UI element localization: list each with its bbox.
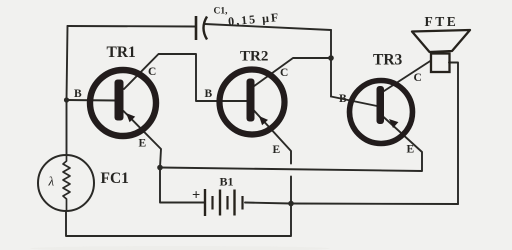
photocell FC1 circle	[38, 155, 94, 211]
wire: TR2 emitter continues below bus (crossing, no connection)	[290, 177, 292, 204]
wire: bottom return to FC1	[66, 204, 291, 237]
wire: TR3 base lead	[331, 97, 377, 107]
wire: TR1 base lead	[67, 99, 117, 102]
wire: top horizontal to capacitor	[68, 25, 197, 28]
junction dot at TR1 base	[64, 97, 69, 102]
svg-text:TR1: TR1	[107, 44, 136, 61]
svg-text:FTE: FTE	[425, 14, 459, 29]
TR1 base bar	[115, 80, 124, 121]
wire: capacitor right plate to corner at TR3 node	[205, 24, 331, 30]
wire: vertical drop to junction of TR2 collector / TR3 base	[330, 30, 332, 97]
speaker FTE driver box	[431, 54, 450, 73]
svg-text:C: C	[280, 67, 288, 79]
FC1 resistor zigzag	[63, 155, 70, 211]
transistor TR3 circle	[350, 81, 413, 144]
TR2 emitter arrow	[259, 116, 268, 125]
svg-text:E: E	[139, 138, 147, 150]
wire: speaker return vertical	[449, 63, 458, 205]
wire: left vertical from top corner down to FC1 top	[67, 26, 68, 155]
svg-text:C: C	[148, 66, 156, 78]
svg-text:B: B	[74, 88, 82, 100]
transistor TR1 circle	[90, 70, 156, 136]
svg-text:TR3: TR3	[373, 52, 403, 69]
wire: battery positive feed	[160, 168, 205, 203]
wire: branch to TR2 collector	[254, 58, 332, 87]
TR3 base bar	[377, 86, 385, 124]
wire: TR1 collector to TR2 base	[124, 54, 248, 101]
wire: negative node to speaker return	[291, 203, 458, 206]
svg-text:B: B	[205, 88, 213, 100]
wire: TR3 collector to speaker	[383, 61, 432, 93]
svg-text:FC1: FC1	[101, 170, 129, 187]
junction dot at emitter bus	[157, 165, 163, 171]
wire: TR1 emitter down to emitter bus	[124, 111, 162, 168]
transistor TR2 circle	[220, 70, 285, 135]
svg-text:C1,: C1,	[214, 7, 229, 17]
junction dot at TR2 collector / TR3 base node	[328, 55, 334, 61]
svg-text:TR2: TR2	[240, 49, 268, 65]
svg-text:C: C	[414, 72, 422, 84]
svg-text:E: E	[407, 144, 415, 156]
svg-text:+: +	[192, 188, 200, 204]
TR1 emitter arrow (points toward bar)	[126, 113, 135, 122]
svg-text:B1: B1	[220, 175, 234, 189]
wire: TR2 emitter down to battery negative node	[254, 110, 292, 164]
capacitor C1 plates	[196, 16, 207, 40]
svg-text:B: B	[339, 93, 347, 105]
junction dot at battery negative	[288, 201, 294, 207]
svg-text:E: E	[273, 144, 281, 156]
TR2 base bar	[247, 79, 255, 122]
battery B1 plates	[205, 189, 243, 216]
speaker FTE cone	[412, 30, 470, 52]
svg-text:λ: λ	[48, 174, 55, 189]
wire: battery to negative node	[245, 203, 291, 204]
wire: emitter bus to TR3 emitter	[160, 117, 422, 172]
TR3 emitter arrow	[389, 119, 398, 128]
